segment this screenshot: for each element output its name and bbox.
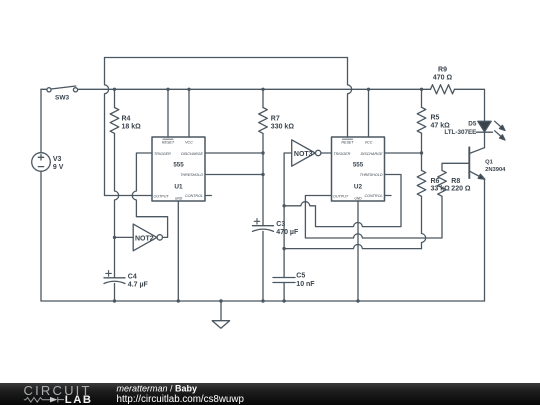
- op-amp style 555 timer U1 box: [152, 137, 205, 201]
- svg-text:10 nF: 10 nF: [296, 281, 315, 288]
- svg-text:C5: C5: [296, 273, 305, 280]
- svg-text:R7: R7: [271, 115, 280, 122]
- svg-text:330 kΩ: 330 kΩ: [271, 123, 295, 130]
- svg-text:OUTPUT: OUTPUT: [333, 194, 349, 198]
- svg-text:Q1: Q1: [485, 159, 494, 165]
- wire: U2 OUTPUT left, down, right to R8 bottom (hop over U2 gnd): [305, 196, 442, 239]
- svg-text:GND: GND: [354, 197, 362, 201]
- wire: top wire y=57.5 (U1 out to U2 reset): [105, 57, 348, 59]
- wire: NOT3 node to U2 threshold (hop over U2 output drop, hop over U2 gnd): [284, 175, 401, 227]
- logo waveform icon: [24, 397, 64, 403]
- svg-text:C4: C4: [128, 273, 137, 280]
- wire: U1 output riser x=104.5 with hop over power rail: [105, 58, 109, 196]
- svg-text:470 µF: 470 µF: [276, 229, 299, 236]
- svg-text:DISCHARGE: DISCHARGE: [361, 152, 383, 156]
- svg-text:D5: D5: [468, 121, 477, 128]
- wire: U1 VCC pin to power rail: [188, 89, 190, 137]
- svg-text:LAB: LAB: [65, 394, 93, 405]
- svg-text:4.7 µF: 4.7 µF: [128, 282, 149, 289]
- svg-text:CONTROL: CONTROL: [185, 194, 203, 198]
- capacitor C3 (polarized): [253, 219, 274, 232]
- resistor R5: [417, 89, 426, 153]
- wire: R7 bottom lead down to C3 plate: [262, 134, 264, 226]
- voltage source V3: [32, 153, 51, 172]
- svg-text:DISCHARGE: DISCHARGE: [181, 152, 203, 156]
- svg-text:RESET: RESET: [341, 141, 354, 145]
- svg-text:555: 555: [353, 162, 364, 169]
- svg-text:V3: V3: [53, 156, 62, 163]
- svg-text:220 Ω: 220 Ω: [451, 186, 471, 193]
- capacitor C4 (polarized): [104, 271, 125, 284]
- 555 timer U2 box: [332, 137, 385, 201]
- wire: left branch down to V3 top: [40, 89, 42, 152]
- wire: C4 bottom lead: [114, 284, 116, 302]
- svg-text:R4: R4: [122, 115, 131, 122]
- svg-text:18 kΩ: 18 kΩ: [122, 123, 142, 130]
- resistor R6: [417, 153, 426, 196]
- svg-text:NOT3: NOT3: [294, 151, 313, 158]
- svg-text:R5: R5: [431, 115, 440, 122]
- transistor Q1: [469, 147, 485, 179]
- wire: U1 THRESHOLD to R7 node: [205, 174, 263, 176]
- inverter NOT3: [292, 140, 321, 166]
- ground symbol: [212, 301, 229, 328]
- label U1 pin RESET (active low): [162, 139, 175, 145]
- wire: short lead from left corner to SW3 left terminal: [41, 88, 47, 90]
- svg-text:2N3904: 2N3904: [485, 167, 506, 173]
- svg-text:470 Ω: 470 Ω: [433, 75, 453, 82]
- svg-text:THRESHOLD: THRESHOLD: [180, 173, 203, 177]
- svg-text:TRIGGER: TRIGGER: [154, 152, 171, 156]
- wire: power rail y=89.3 from SW3 to R9 left: [78, 88, 431, 90]
- wire: U2 CONTROL stub: [385, 195, 392, 197]
- wire: NOT3 output to U2 trigger: [321, 152, 332, 154]
- wire: bottom ground rail: [41, 300, 485, 302]
- wire: U1 DISCHARGE to R7 node: [205, 152, 263, 154]
- label U2 pin RESET (active low): [341, 139, 354, 145]
- wire: U2 reset drop x=347.5 with hop over power rail: [348, 58, 352, 138]
- svg-text:R8: R8: [451, 178, 460, 185]
- svg-text:GND: GND: [175, 197, 183, 201]
- switch SW3: [47, 86, 78, 92]
- wire: U2 VCC pin to power rail: [368, 89, 370, 137]
- resistor R9: [431, 85, 455, 94]
- svg-text:http://circuitlab.com/cs8wuwp: http://circuitlab.com/cs8wuwp: [117, 394, 245, 405]
- wire: NOT2 input stub: [115, 236, 134, 238]
- svg-text:U2: U2: [354, 184, 363, 191]
- wire: NOT2 output to U1 trigger (up and over, hop at output wire): [132, 153, 167, 237]
- svg-text:TRIGGER: TRIGGER: [334, 152, 351, 156]
- capacitor C5: [273, 278, 295, 283]
- svg-text:555: 555: [173, 162, 184, 169]
- svg-text:VCC: VCC: [185, 141, 193, 145]
- svg-text:NOT2: NOT2: [135, 235, 154, 242]
- wire: R9 right to LED drop corner: [455, 89, 485, 121]
- wire: R8 top lead to Q1 base: [442, 163, 469, 170]
- wire: R6 bottom lead down (hop over U2out-R8 wire) to R6/C5 wire: [422, 196, 426, 248]
- svg-text:OUTPUT: OUTPUT: [154, 194, 170, 198]
- wire: NOT3 node to R6 bottom (hop over U2 gnd): [284, 244, 421, 248]
- wire: R4 bottom lead down to C4, hop over U1 output wire at y=195.5: [115, 134, 119, 278]
- footer bar: [0, 383, 540, 405]
- svg-text:CONTROL: CONTROL: [364, 194, 382, 198]
- resistor R4: [110, 89, 119, 133]
- wire: C3 bottom lead to ground rail: [262, 231, 264, 301]
- wire: U2 GND down to ground rail: [357, 201, 359, 301]
- wire: C5 bottom lead to ground rail: [283, 283, 285, 302]
- svg-text:meratterman / Baby: meratterman / Baby: [117, 383, 198, 393]
- resistor R7: [259, 89, 268, 133]
- svg-text:R9: R9: [438, 66, 447, 73]
- wire: Q1 emitter down to ground rail: [484, 179, 486, 301]
- wire: U1 RESET pin to power rail: [167, 89, 169, 137]
- svg-text:U1: U1: [174, 184, 183, 191]
- wire: LED cathode down to Q1 collector: [484, 132, 486, 148]
- svg-text:9 V: 9 V: [53, 164, 64, 171]
- LED D5: [477, 121, 506, 140]
- svg-text:RESET: RESET: [162, 141, 175, 145]
- wire: U2 DISCHARGE to R5/R6 node: [385, 152, 422, 154]
- wire: U1 GND down to ground rail: [177, 201, 179, 301]
- svg-text:SW3: SW3: [55, 94, 69, 101]
- resistor R8: [438, 170, 447, 196]
- wire: V3 bottom down to ground rail: [40, 171, 42, 301]
- svg-text:VCC: VCC: [365, 141, 373, 145]
- wire: NOT3 input riser x=284.1 from gate down to C5: [284, 153, 292, 278]
- wire: U1 CONTROL stub: [205, 195, 212, 197]
- svg-text:R6: R6: [431, 178, 440, 185]
- svg-text:LTL-307EE: LTL-307EE: [444, 129, 476, 136]
- svg-text:THRESHOLD: THRESHOLD: [360, 173, 383, 177]
- inverter NOT2: [133, 224, 162, 251]
- wire: U1 output horizontal run y=195.5: [105, 195, 153, 197]
